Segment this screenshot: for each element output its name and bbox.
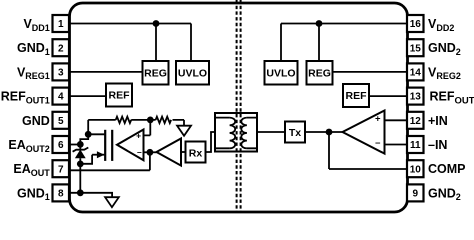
regulator block REG side2 [307, 61, 333, 85]
svg-text:5: 5 [58, 116, 64, 127]
svg-text:REF: REF [109, 90, 131, 102]
junction pin 8 ground node [77, 189, 84, 196]
ground symbol GND1 (output stage) [105, 197, 119, 207]
svg-text:+IN: +IN [428, 114, 448, 128]
wire drain node to MOSFET drain [88, 133, 104, 135]
wire pin 7 EAOUT [69, 152, 150, 170]
svg-text:REG: REG [308, 68, 331, 80]
pin 1 box [53, 15, 70, 32]
resistor R2 [156, 117, 172, 123]
wire REF side2 to pin 13 REFOUT [369, 95, 407, 97]
svg-text:1: 1 [58, 19, 64, 30]
pin 14 box [407, 63, 424, 80]
wire VDD2 to UVLO side2 [280, 24, 282, 62]
isolation barrier [237, 0, 241, 212]
pin 15 box [407, 39, 424, 56]
wire REG side2 to pin 14 VREG2 [333, 71, 408, 73]
pin 10 box [407, 160, 424, 177]
wire EAOUT node to op-amp - input [144, 151, 150, 153]
svg-text:3: 3 [58, 68, 64, 79]
svg-text:–: – [375, 137, 380, 148]
regulator block REG side1 [143, 61, 169, 85]
svg-text:COMP: COMP [428, 162, 466, 176]
wire Rx to buffer [181, 151, 186, 153]
svg-text:4: 4 [58, 92, 64, 103]
svg-text:UVLO: UVLO [266, 68, 295, 80]
svg-text:13: 13 [410, 92, 422, 103]
pin 7 box [53, 160, 70, 177]
svg-text:Rx: Rx [189, 147, 203, 159]
pin 9 box [407, 184, 424, 201]
wire pin 8 GND1 [69, 193, 112, 197]
svg-text:REG: REG [144, 68, 167, 80]
wire VDD1 to REG side1 [155, 24, 157, 62]
transformer T1 isolation [215, 113, 257, 152]
wire pin 3 VREG1 to REG side1 [69, 71, 143, 73]
transistor Q1 output MOSFET [105, 130, 112, 161]
svg-text:8: 8 [58, 189, 64, 200]
svg-text:REF: REF [346, 90, 368, 102]
junction zener anode node [77, 161, 84, 168]
wire VDD2 to REG side2 [318, 24, 320, 62]
wire top feedback rail [88, 120, 184, 126]
transmitter block Tx [285, 122, 305, 143]
svg-text:Tx: Tx [289, 127, 301, 139]
svg-text:10: 10 [410, 164, 422, 175]
junction buffer output node [147, 149, 154, 156]
wire pin 12 +IN to error amp [385, 119, 408, 121]
svg-text:2: 2 [58, 43, 64, 54]
svg-text:6: 6 [58, 140, 64, 151]
receiver block Rx [186, 142, 206, 163]
svg-text:14: 14 [410, 68, 422, 79]
wire drain node jog to EAOUT2 node [80, 134, 88, 144]
wire zener anode to MOSFET source [80, 155, 92, 164]
zener diode D1 [73, 144, 89, 192]
wire pin 6 EAOUT2 [69, 144, 80, 146]
resistor R1 [116, 117, 132, 123]
junction VDD2 rail [316, 20, 323, 27]
op-amp A1 output driver [117, 130, 144, 161]
IC body outline U1 [70, 3, 408, 212]
wire pin 4 REFOUT1 to REF side1 [69, 95, 106, 97]
wire COMP node to pin 10 COMP [329, 132, 407, 169]
svg-text:–IN: –IN [428, 138, 447, 152]
wire transformer to Rx [206, 132, 216, 152]
svg-text:7: 7 [58, 164, 64, 175]
wire MOSFET source with arrow [92, 151, 104, 158]
undervoltage lockout block UVLO side1 [176, 61, 209, 85]
wire error amp output to Tx [305, 131, 343, 133]
svg-text:11: 11 [410, 140, 421, 151]
pin 4 box [53, 88, 70, 105]
junction drain node [85, 131, 92, 138]
pin 11 box [407, 136, 424, 153]
pin 5 box [53, 112, 70, 129]
wire VDD1 to UVLO side1 [190, 24, 192, 62]
junction COMP node [326, 129, 333, 136]
svg-text:16: 16 [410, 19, 422, 30]
pin 13 box [407, 88, 424, 105]
pin 3 box [53, 63, 70, 80]
pin 8 box [53, 184, 70, 201]
junction EAOUT2 node [77, 141, 84, 148]
junction VDD1 rail [153, 20, 160, 27]
pin 12 box [407, 112, 424, 129]
wire top rail to drain node [87, 120, 89, 134]
wire feedback node to op-amp + input [144, 120, 151, 135]
reference block REF side1 [106, 84, 132, 107]
ground symbol GND1 (feedback divider) [177, 126, 191, 136]
wire pin 1 VDD1 rail [69, 23, 191, 25]
wire Tx to transformer [257, 131, 285, 133]
op-amp U2 input error amplifier [343, 111, 385, 154]
junction feedback rail node [147, 117, 154, 124]
wire pin 11 -IN to error amp [385, 144, 408, 146]
svg-text:+: + [375, 114, 381, 125]
svg-text:15: 15 [410, 43, 422, 54]
svg-text:GND: GND [22, 114, 50, 128]
pin 6 box [53, 136, 70, 153]
svg-text:12: 12 [410, 116, 422, 127]
svg-text:–: – [137, 147, 142, 157]
pin 16 box [407, 15, 424, 32]
pin 2 box [53, 39, 70, 56]
reference block REF side2 [343, 84, 369, 107]
wire buffer output to EAOUT node [150, 151, 157, 153]
buffer amplifier A2 [157, 139, 182, 166]
svg-text:UVLO: UVLO [178, 68, 207, 80]
svg-text:+: + [136, 130, 141, 140]
svg-text:9: 9 [412, 189, 418, 200]
undervoltage lockout block UVLO side2 [265, 61, 298, 85]
wire pin 16 VDD2 rail [281, 23, 407, 25]
